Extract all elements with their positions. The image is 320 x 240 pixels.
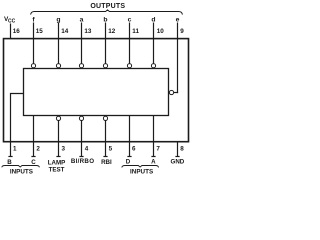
pin 3 terminal dash <box>56 156 60 158</box>
svg-text:3: 3 <box>62 145 66 152</box>
INPUTS brace right <box>122 166 159 168</box>
pin 2 terminal dash <box>31 156 35 158</box>
pin 2 wire C <box>33 116 35 157</box>
bubble a <box>79 64 83 68</box>
pin 3 wire LT <box>58 120 60 156</box>
svg-text:13: 13 <box>84 28 92 35</box>
svg-text:C: C <box>31 159 36 166</box>
bubble e <box>169 90 173 94</box>
svg-text:16: 16 <box>13 28 21 35</box>
pin 9 wire e horizontal <box>173 92 178 94</box>
INPUTS brace left <box>2 166 40 168</box>
svg-text:15: 15 <box>36 28 44 35</box>
svg-text:f: f <box>32 16 35 23</box>
svg-text:9: 9 <box>180 28 184 35</box>
svg-text:d: d <box>151 16 155 23</box>
svg-text:5: 5 <box>109 145 113 152</box>
svg-text:D: D <box>126 159 131 166</box>
svg-text:A: A <box>151 159 156 166</box>
svg-text:e: e <box>176 16 180 23</box>
package outline <box>4 39 189 142</box>
decoder block <box>24 69 169 116</box>
svg-text:B: B <box>7 159 12 166</box>
pin 13 wire a <box>81 23 83 64</box>
svg-text:12: 12 <box>108 28 116 35</box>
pin 9 wire e vertical <box>177 23 179 94</box>
svg-text:6: 6 <box>132 145 136 152</box>
svg-text:a: a <box>80 16 84 23</box>
bubble RBI <box>103 116 107 120</box>
pin 14 wire g <box>58 23 60 64</box>
pin 5 terminal dash <box>103 156 107 158</box>
svg-text:b: b <box>103 16 107 23</box>
bubble g <box>56 64 60 68</box>
pin 6 wire D <box>129 116 131 157</box>
pin 11 wire c <box>129 23 131 64</box>
pin 7 wire A <box>153 116 155 157</box>
svg-text:INPUTS: INPUTS <box>10 169 33 176</box>
svg-text:10: 10 <box>157 28 165 35</box>
pin 5 wire RBI <box>105 120 107 156</box>
pin 12 wire b <box>105 23 107 64</box>
svg-text:11: 11 <box>132 28 139 35</box>
svg-text:CC: CC <box>8 19 16 25</box>
bubble b <box>103 64 107 68</box>
svg-text:INPUTS: INPUTS <box>130 169 153 176</box>
svg-text:LAMP: LAMP <box>48 159 66 166</box>
pin 10 wire d <box>153 23 155 64</box>
svg-text:4: 4 <box>85 145 89 152</box>
pin 15 wire f <box>33 23 35 64</box>
pin 1 terminal dash <box>8 156 12 158</box>
bubble LT <box>56 116 60 120</box>
pin 4 terminal dash <box>79 156 83 158</box>
pin 1 wire B <box>11 94 24 157</box>
svg-text:g: g <box>56 16 60 23</box>
svg-text:RBI: RBI <box>101 159 112 166</box>
svg-text:TEST: TEST <box>49 166 65 173</box>
bubble c <box>127 64 131 68</box>
pin 7 terminal dash <box>151 156 155 158</box>
OUTPUTS brace <box>31 10 183 15</box>
svg-text:OUTPUTS: OUTPUTS <box>90 3 125 10</box>
bubble f <box>31 64 35 68</box>
bubble BI/RBO <box>79 116 83 120</box>
svg-text:BI/RBO: BI/RBO <box>71 158 94 165</box>
svg-text:7: 7 <box>156 145 160 152</box>
svg-text:14: 14 <box>61 28 69 35</box>
bubble d <box>151 64 155 68</box>
svg-text:2: 2 <box>36 145 40 152</box>
pin 16 VCC stub <box>10 24 12 39</box>
pin 8 terminal dash <box>175 156 179 158</box>
svg-text:8: 8 <box>180 145 184 152</box>
svg-text:GND: GND <box>171 159 185 166</box>
pin 4 wire BI/RBO <box>81 120 83 156</box>
svg-text:c: c <box>128 16 132 23</box>
pin 8 GND stub <box>177 142 179 157</box>
svg-text:1: 1 <box>13 145 17 152</box>
pin 6 terminal dash <box>127 156 131 158</box>
